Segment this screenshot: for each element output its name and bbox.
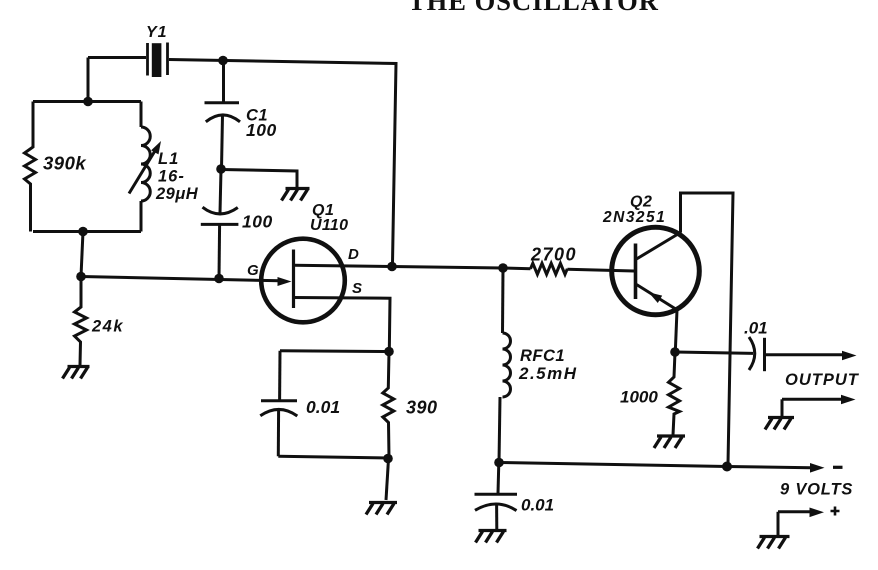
- svg-text:2N3251: 2N3251: [602, 209, 666, 226]
- svg-text:2700: 2700: [530, 245, 577, 265]
- svg-text:100: 100: [242, 212, 273, 232]
- svg-text:RFC1: RFC1: [520, 347, 565, 365]
- svg-text:9 VOLTS: 9 VOLTS: [780, 481, 853, 499]
- svg-text:24k: 24k: [91, 318, 124, 336]
- svg-text:U110: U110: [310, 217, 348, 234]
- svg-text:OUTPUT: OUTPUT: [785, 371, 860, 389]
- svg-text:2.5mH: 2.5mH: [518, 364, 578, 383]
- svg-text:16-: 16-: [158, 168, 185, 186]
- svg-text:Y1: Y1: [146, 24, 168, 41]
- svg-text:29μH: 29μH: [155, 185, 199, 203]
- svg-text:390k: 390k: [43, 153, 87, 174]
- svg-text:.01: .01: [744, 319, 768, 338]
- svg-text:L1: L1: [158, 150, 179, 168]
- svg-text:G: G: [247, 262, 259, 279]
- svg-text:390: 390: [406, 398, 438, 418]
- svg-text:Q2: Q2: [630, 194, 652, 211]
- svg-text:1000: 1000: [620, 388, 658, 407]
- svg-text:THE OSCILLATOR: THE OSCILLATOR: [408, 0, 659, 16]
- svg-text:0.01: 0.01: [521, 496, 554, 515]
- svg-text:0.01: 0.01: [306, 397, 340, 417]
- svg-text:100: 100: [246, 120, 277, 140]
- svg-text:S: S: [352, 280, 362, 297]
- svg-text:D: D: [348, 246, 359, 263]
